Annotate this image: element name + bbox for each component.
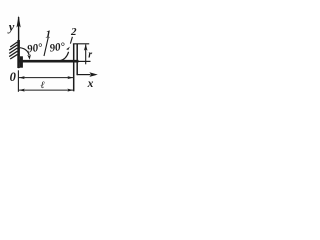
svg-text:x: x xyxy=(87,78,94,90)
x axis line xyxy=(77,74,90,76)
arrowhead of second arc (points up to element 2) xyxy=(66,47,70,52)
leader line of label 2 xyxy=(70,37,72,44)
element 2 top cap / r extension line xyxy=(73,43,89,45)
lower dimension right arrowhead xyxy=(67,89,73,92)
upper dimension left arrowhead xyxy=(19,76,25,79)
90° arc at wall xyxy=(20,48,29,56)
y axis line xyxy=(18,17,20,68)
upper dimension line xyxy=(19,77,73,79)
svg-text:90°: 90° xyxy=(26,41,44,55)
y axis arrowhead xyxy=(17,16,21,28)
r dimension arrowhead up xyxy=(84,44,88,50)
svg-text:0: 0 xyxy=(10,70,17,84)
lower dimension left arrowhead xyxy=(19,89,25,92)
svg-text:90°: 90° xyxy=(49,40,67,54)
svg-text:2: 2 xyxy=(70,26,77,38)
svg-text:y: y xyxy=(7,20,15,34)
leader line of label 1 xyxy=(44,38,48,56)
wall hatching xyxy=(9,42,17,59)
lower dimension line (l) xyxy=(19,89,73,91)
svg-text:r: r xyxy=(88,50,92,61)
element 2 left line xyxy=(73,44,75,92)
element 2 right line xyxy=(76,44,78,75)
flange at wall-rod junction xyxy=(20,56,23,67)
upper dimension right arrowhead xyxy=(67,76,73,79)
extension line below origin xyxy=(17,70,19,92)
arrowhead of wall arc (points down to rod) xyxy=(27,54,31,59)
svg-text:ℓ: ℓ xyxy=(41,80,45,91)
beam thin extension to the right (for r dimension) xyxy=(79,60,91,62)
rod 1 (beam along x) xyxy=(18,60,79,63)
x axis arrowhead xyxy=(89,72,97,77)
90° arc at rod end xyxy=(60,52,68,61)
wall (thick part of vertical line) xyxy=(17,40,20,68)
r dimension line xyxy=(85,45,87,65)
svg-text:1: 1 xyxy=(46,29,52,41)
